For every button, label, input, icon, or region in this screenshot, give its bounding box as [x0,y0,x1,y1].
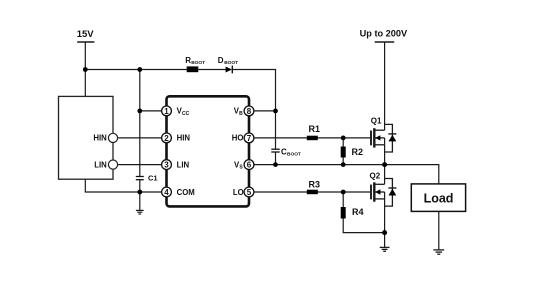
svg-text:LO: LO [233,188,244,197]
junction COM node [137,190,142,195]
junction 15V bus left [83,67,88,72]
junction R4 to Q2 source [382,230,387,235]
load box [411,184,465,212]
wire load bottom to ground [438,211,440,250]
svg-text:4: 4 [164,188,169,197]
resistor R3 [307,190,318,195]
svg-text:R3: R3 [309,180,321,190]
svg-text:5: 5 [247,188,252,197]
svg-text:LIN: LIN [177,160,190,169]
svg-text:6: 6 [247,161,252,170]
input signal source box [59,96,114,179]
ground under Q2 source [380,247,390,251]
capacitor CBOOT [271,148,279,150]
wire LO line pin 5 to Q2 gate [249,191,370,193]
resistor R2 [341,147,346,158]
supply Up to 200V terminal bar [375,41,395,43]
resistor RBOOT [187,66,199,72]
wire pin 8 to bootstrap column [249,110,276,112]
svg-text:COM: COM [177,188,195,197]
svg-text:Q1: Q1 [371,116,382,125]
wire HO line pin 7 to Q1 gate [249,137,370,139]
junction CBOOT on VS line [273,162,278,167]
wire Q1 drain to 200V supply [384,42,386,130]
svg-text:BOOT: BOOT [224,60,238,66]
pin 3 circle [162,160,172,170]
svg-text:1: 1 [164,107,169,116]
junction Q1 source / Q2 drain on VS [382,162,387,167]
wire CBOOT bottom to VS line [275,152,277,164]
pin 6 circle [244,160,254,170]
svg-text:HIN: HIN [177,134,191,143]
pin 2 circle [162,133,172,143]
wire C1 bottom to COM node [139,180,141,211]
pin 8 circle [244,106,254,116]
svg-text:C1: C1 [148,174,158,183]
wire R2 branch [342,138,344,165]
capacitor C1 [136,176,144,178]
wire DBOOT to bootstrap corner down to pin 8 column [232,70,275,150]
supply 15V terminal bar [77,41,94,43]
svg-text:R1: R1 [309,124,321,134]
wire Q1 source to VS node [384,138,386,165]
svg-text:CC: CC [182,111,190,117]
resistor R4 [341,207,346,219]
diode DBOOT [226,67,232,73]
wire LIN to pin 3 [113,164,167,166]
svg-text:BOOT: BOOT [287,152,301,158]
svg-text:LIN: LIN [94,160,107,169]
pin 7 circle [244,133,254,143]
wire VS line pin 6 to load corner [249,165,439,184]
wire Vcc bus vertical x=139.8 [139,70,141,177]
junction R1/R2 [341,136,346,141]
svg-text:BOOT: BOOT [191,60,205,66]
svg-text:R2: R2 [352,147,364,157]
transistor Q2 [371,179,396,207]
wire box bottom to COM pin 4 [85,179,166,192]
wire Vcc branch to pin 1 [140,110,167,112]
junction pin8 bootstrap [273,109,278,114]
junction Vcc pin branch [137,109,142,114]
svg-text:Load: Load [424,191,454,205]
wire top bus left segment [85,69,187,71]
node LIN terminal circle [108,160,117,169]
svg-text:15V: 15V [77,29,95,40]
pin 5 circle [244,187,254,197]
pin 1 circle [162,106,172,116]
node HIN terminal circle [108,133,117,142]
transistor Q1 [371,124,396,152]
pin 4 circle [162,187,172,197]
svg-text:HIN: HIN [93,134,107,143]
wire 15V vertical feed [84,42,86,96]
wire HIN to pin 2 [113,137,167,139]
svg-text:2: 2 [164,134,169,143]
svg-text:8: 8 [247,107,252,116]
svg-text:B: B [239,111,243,117]
junction R2 on VS line [341,162,346,167]
wire RBOOT to DBOOT [198,69,226,71]
svg-text:7: 7 [247,134,252,143]
svg-text:Up to 200V: Up to 200V [360,29,408,39]
wire Q2 source down to ground [384,192,386,247]
IC U1 gate driver body [167,96,250,206]
wire Q2 drain from VS node [384,165,386,185]
junction 15V bus at Vcc column [137,67,142,72]
wire R4 branch down and over to Q2 source [343,192,384,233]
ground under C1 / COM [136,210,144,214]
svg-text:3: 3 [164,161,169,170]
junction R3/R4 [341,190,346,195]
svg-text:Q2: Q2 [370,171,381,180]
svg-text:D: D [218,56,224,65]
svg-text:R4: R4 [352,207,364,217]
svg-text:HO: HO [232,134,244,143]
resistor R1 [307,136,318,141]
ground under load [433,250,444,254]
